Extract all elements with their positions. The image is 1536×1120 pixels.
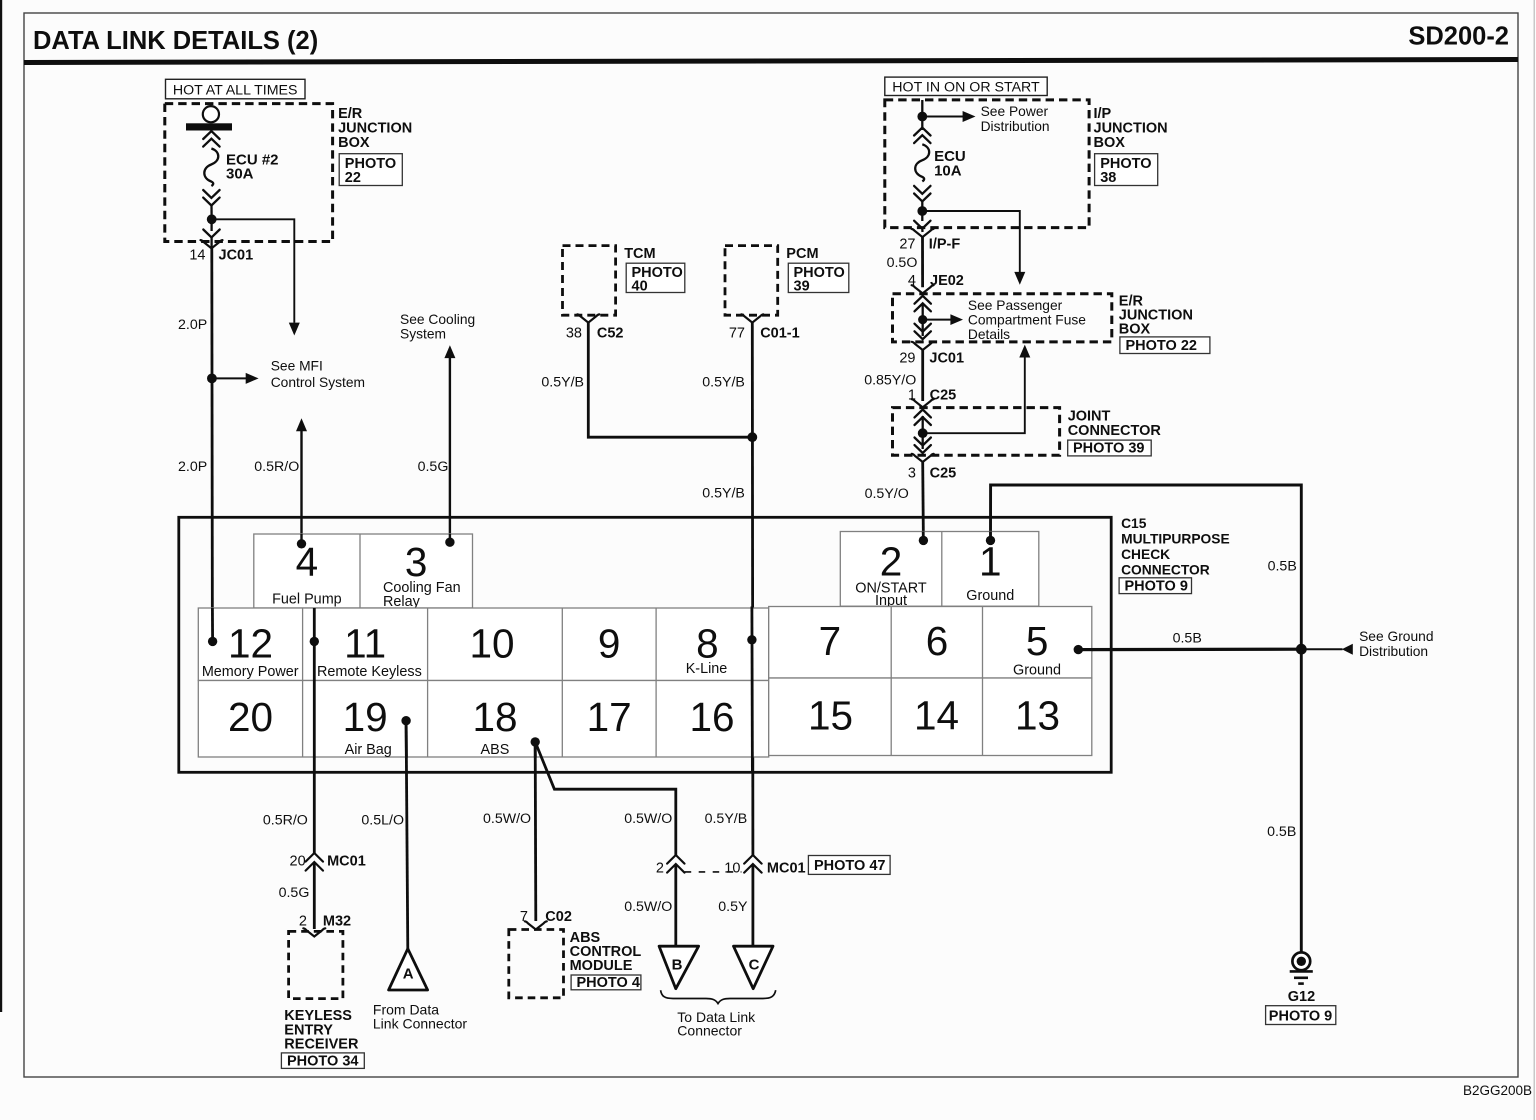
svg-text:0.5O: 0.5O xyxy=(887,255,918,271)
svg-text:MC01: MC01 xyxy=(767,861,806,877)
svg-text:1: 1 xyxy=(979,539,1002,585)
connector pin 2 MC01 xyxy=(656,855,685,877)
wire K-line through boxes 8 and 16 xyxy=(751,607,754,773)
off-page triangle A xyxy=(389,949,428,990)
svg-text:Connector: Connector xyxy=(677,1023,742,1039)
pin box 2/1 group xyxy=(840,532,1039,607)
svg-text:15: 15 xyxy=(808,693,853,739)
connector pin 2 M32 xyxy=(299,914,351,937)
wire branch joint connector (up arrow) xyxy=(923,345,1031,434)
svg-text:19: 19 xyxy=(343,694,388,740)
wire JC01 to C25 (0.85Y/O) xyxy=(921,350,924,401)
wire pin 11 to keyless (0.5R/O) xyxy=(313,639,316,854)
node pin 19 dot xyxy=(401,716,410,725)
svg-text:BOX: BOX xyxy=(1119,322,1151,338)
scanner edge bar left xyxy=(0,0,2,1012)
svg-text:PHOTO 34: PHOTO 34 xyxy=(287,1054,358,1070)
svg-text:7: 7 xyxy=(819,618,842,664)
PHOTO 9 box (G12) xyxy=(1266,1006,1336,1025)
wire stub pin 1 inside box xyxy=(989,532,992,541)
svg-text:PHOTO 4: PHOTO 4 xyxy=(577,975,640,991)
note See Ground Distribution xyxy=(1359,629,1433,659)
svg-text:77: 77 xyxy=(729,325,745,341)
svg-text:PCM: PCM xyxy=(786,246,818,262)
node passenger branch dot xyxy=(918,315,927,324)
wire through joint connector xyxy=(915,410,931,454)
svg-text:G12: G12 xyxy=(1288,989,1315,1005)
joint connector box (dashed) xyxy=(893,408,1060,456)
svg-text:RECEIVER: RECEIVER xyxy=(284,1037,359,1053)
svg-text:10: 10 xyxy=(724,861,740,877)
connector pin 27 I/P-F xyxy=(899,229,960,253)
wire stub pin 11 inside box xyxy=(313,608,316,641)
node pin 4 dot xyxy=(297,539,306,548)
svg-text:0.5L/O: 0.5L/O xyxy=(361,812,404,828)
wire JC01 to pin 12 (2.0P) xyxy=(210,248,213,640)
connector pin 14 JC01 xyxy=(189,240,253,263)
svg-text:BOX: BOX xyxy=(338,135,370,151)
PCM PHOTO 39 box xyxy=(788,263,849,294)
svg-text:PHOTO 9: PHOTO 9 xyxy=(1125,579,1188,595)
wire stub pin 18 inside box xyxy=(534,742,537,758)
fuse ECU 10A xyxy=(914,120,930,207)
battery feed terminal xyxy=(186,106,232,130)
wire fuse output xyxy=(203,223,219,248)
svg-text:DATA LINK DETAILS (2): DATA LINK DETAILS (2) xyxy=(33,27,318,55)
wire branch to MFI (down arrow) xyxy=(212,219,300,335)
node pin 1 dot xyxy=(986,536,995,545)
title rule xyxy=(24,60,1518,63)
svg-text:Ground: Ground xyxy=(1013,662,1061,678)
label HOT IN ON OR START xyxy=(885,77,1047,96)
svg-text:System: System xyxy=(400,327,446,342)
TCM module box (dashed) xyxy=(563,246,616,316)
svg-text:MULTIPURPOSE: MULTIPURPOSE xyxy=(1121,532,1230,547)
svg-text:0.5Y: 0.5Y xyxy=(718,899,748,915)
svg-text:0.5W/O: 0.5W/O xyxy=(624,899,672,915)
svg-text:PHOTO 47: PHOTO 47 xyxy=(814,858,885,874)
svg-text:20: 20 xyxy=(228,694,273,740)
fuse value label ECU #2 30A xyxy=(226,152,279,183)
svg-text:2.0P: 2.0P xyxy=(178,317,207,333)
svg-text:0.5Y/B: 0.5Y/B xyxy=(702,374,745,390)
svg-text:BOX: BOX xyxy=(1094,135,1126,151)
junction dot in E/R box xyxy=(207,214,217,224)
wire arrow to See MFI xyxy=(212,373,259,384)
E/R JUNCTION BOX label xyxy=(338,106,412,151)
wire fuel pump stub (0.5R/O) xyxy=(296,418,307,544)
svg-text:22: 22 xyxy=(345,170,361,186)
connector pin 29 JC01 xyxy=(899,342,964,367)
svg-text:C15: C15 xyxy=(1121,516,1147,531)
wire stub pin 19 inside box xyxy=(405,721,408,758)
connector pin 4 JE02 xyxy=(908,273,964,293)
keyless entry receiver box (dashed) xyxy=(289,931,343,998)
svg-text:CONNECTOR: CONNECTOR xyxy=(1068,423,1162,439)
svg-text:See Passenger: See Passenger xyxy=(968,298,1063,313)
svg-text:Distribution: Distribution xyxy=(1359,644,1428,659)
svg-text:5: 5 xyxy=(1026,618,1049,664)
wire I/P-F to JE02 (0.5O) xyxy=(921,237,924,287)
svg-text:Link Connector: Link Connector xyxy=(373,1016,468,1032)
brace under triangles xyxy=(661,990,776,1003)
svg-text:27: 27 xyxy=(899,237,915,253)
node pin 18 dot xyxy=(531,737,540,746)
node MFI branch dot xyxy=(207,374,217,384)
wire pin 19 to A (0.5L/O) xyxy=(406,721,408,950)
svg-text:HOT AT ALL TIMES: HOT AT ALL TIMES xyxy=(173,82,298,98)
svg-text:JE02: JE02 xyxy=(930,273,964,289)
node pin 2 dot xyxy=(919,536,928,545)
svg-text:PHOTO 9: PHOTO 9 xyxy=(1269,1008,1332,1024)
fuse ECU #2 30A xyxy=(203,131,219,215)
svg-text:14: 14 xyxy=(189,248,205,264)
svg-text:30A: 30A xyxy=(226,166,254,183)
svg-text:0.5B: 0.5B xyxy=(1268,559,1297,575)
svg-text:MODULE: MODULE xyxy=(570,958,633,974)
svg-text:20: 20 xyxy=(290,854,306,870)
connector pin 77 C01-1 xyxy=(729,314,800,341)
node TCM/PCM junction xyxy=(747,432,757,442)
svg-text:CONNECTOR: CONNECTOR xyxy=(1121,563,1210,578)
svg-text:0.5R/O: 0.5R/O xyxy=(254,459,299,475)
svg-text:10A: 10A xyxy=(934,162,962,179)
note See MFI Control System xyxy=(271,359,365,390)
wire arrow See Ground Distribution xyxy=(1301,644,1353,655)
svg-text:SD200-2: SD200-2 xyxy=(1408,23,1509,51)
note See Passenger Compartment Fuse Details xyxy=(968,298,1086,342)
svg-text:8: 8 xyxy=(696,621,719,667)
PCM module box (dashed) xyxy=(725,246,778,316)
svg-text:14: 14 xyxy=(914,693,959,739)
PHOTO 38 box (I/P) xyxy=(1095,154,1158,187)
svg-text:K-Line: K-Line xyxy=(686,661,728,677)
wire PCM K-line vertical xyxy=(751,323,754,856)
svg-text:Fuel Pump: Fuel Pump xyxy=(272,592,342,608)
E/R junction box (dashed) xyxy=(165,104,333,242)
svg-text:Control System: Control System xyxy=(271,375,365,390)
connector pin 1 C25 xyxy=(908,388,956,408)
svg-text:3: 3 xyxy=(908,465,916,481)
node I/P branch dot xyxy=(917,206,927,216)
pin row boxes row 2 left xyxy=(198,681,768,758)
svg-text:9: 9 xyxy=(598,621,621,667)
svg-text:6: 6 xyxy=(926,618,949,664)
svg-text:A: A xyxy=(403,966,414,983)
svg-text:TCM: TCM xyxy=(624,246,655,262)
wire feed into I/P box xyxy=(921,100,923,112)
svg-text:See Cooling: See Cooling xyxy=(400,312,475,327)
svg-text:16: 16 xyxy=(689,694,734,740)
svg-text:JC01: JC01 xyxy=(929,351,964,367)
wire TCM to junction (0.5Y/B) xyxy=(588,323,752,438)
connector pin 38 C52 xyxy=(566,314,624,341)
wire pin 1 to 0.5B riser xyxy=(991,485,1302,953)
note See Power Distribution xyxy=(981,104,1050,134)
wire ABS branch to B xyxy=(535,742,676,855)
node pin 3 dot xyxy=(445,538,454,547)
PHOTO 47 box xyxy=(808,856,890,875)
svg-text:2: 2 xyxy=(880,539,903,585)
PHOTO 22 box xyxy=(1120,337,1210,354)
wire cooling fan stub (0.5G) xyxy=(444,345,455,542)
svg-text:0.5Y/B: 0.5Y/B xyxy=(541,374,584,390)
wire C25 to pin 2 (0.5Y/O) xyxy=(921,462,925,540)
PHOTO 4 box xyxy=(571,975,641,991)
C15 label xyxy=(1121,516,1230,578)
svg-text:Memory Power: Memory Power xyxy=(202,664,299,680)
pin 2 label ON/START Input xyxy=(855,580,927,609)
svg-text:PHOTO 22: PHOTO 22 xyxy=(1126,338,1197,354)
svg-text:CHECK: CHECK xyxy=(1121,547,1170,562)
svg-text:0.5W/O: 0.5W/O xyxy=(624,811,672,827)
svg-text:C52: C52 xyxy=(597,325,624,341)
node pin 8 K-line dot xyxy=(747,635,756,644)
node pin 11 dot xyxy=(310,637,319,646)
I/P junction box (dashed) xyxy=(885,100,1089,228)
svg-text:See Power: See Power xyxy=(981,104,1049,119)
ABS control module box (dashed) xyxy=(509,930,564,998)
svg-text:2: 2 xyxy=(656,861,664,877)
svg-text:MC01: MC01 xyxy=(327,854,366,870)
svg-text:Distribution: Distribution xyxy=(981,119,1050,134)
svg-text:0.5Y/B: 0.5Y/B xyxy=(705,811,748,827)
wire fuse output xyxy=(914,215,930,232)
connector pin 20 MC01 xyxy=(290,853,366,871)
svg-text:Ground: Ground xyxy=(966,588,1014,604)
svg-text:HOT IN ON OR START: HOT IN ON OR START xyxy=(892,80,1040,96)
pin row boxes right group xyxy=(769,607,1092,756)
svg-text:PHOTO 39: PHOTO 39 xyxy=(1073,441,1144,457)
wire stub pin 2 inside box xyxy=(922,532,925,541)
I/P JUNCTION BOX label xyxy=(1094,106,1168,151)
PHOTO 39 box xyxy=(1068,440,1152,457)
svg-text:Remote Keyless: Remote Keyless xyxy=(317,664,422,680)
svg-text:JC01: JC01 xyxy=(219,248,254,264)
svg-text:0.5G: 0.5G xyxy=(418,459,449,475)
wire pin 5 ground (0.5B) xyxy=(1078,648,1301,652)
ground G12 symbol xyxy=(1290,952,1313,983)
svg-text:3: 3 xyxy=(405,539,428,585)
note To Data Link Connector xyxy=(677,1009,756,1039)
svg-text:11: 11 xyxy=(344,621,386,667)
pin box 4/3 group xyxy=(254,534,473,608)
scanner edge line right xyxy=(1534,0,1535,1120)
C15 connector outline xyxy=(179,517,1111,772)
node pin 5 dot xyxy=(1074,645,1083,654)
connector pin 10 MC01 xyxy=(724,855,805,877)
fuse value label ECU 10A xyxy=(934,148,966,179)
node pin 12 dot xyxy=(208,637,217,646)
node power distribution dot xyxy=(917,112,927,122)
svg-text:38: 38 xyxy=(566,325,582,341)
svg-text:10: 10 xyxy=(469,621,514,667)
svg-text:See Ground: See Ground xyxy=(1359,629,1433,644)
svg-text:See MFI: See MFI xyxy=(271,359,323,374)
svg-text:0.5B: 0.5B xyxy=(1267,824,1296,840)
connector pin 7 C02 xyxy=(520,909,572,930)
node ground distribution junction xyxy=(1296,644,1307,655)
wire stub pin 12 inside box xyxy=(211,608,214,641)
svg-text:Compartment Fuse: Compartment Fuse xyxy=(968,313,1086,328)
svg-text:38: 38 xyxy=(1100,170,1116,186)
svg-text:0.5R/O: 0.5R/O xyxy=(263,812,308,828)
svg-text:I/P-F: I/P-F xyxy=(929,237,961,253)
ABS CONTROL MODULE label xyxy=(570,930,642,974)
wire stub pin 4 inside box xyxy=(300,534,302,544)
JOINT CONNECTOR label xyxy=(1068,409,1162,440)
svg-text:ABS: ABS xyxy=(481,742,510,758)
off-page triangle B xyxy=(659,946,699,989)
svg-text:40: 40 xyxy=(632,279,648,295)
connector pin 3 C25 xyxy=(908,454,956,482)
note From Data Link Connector xyxy=(373,1001,468,1031)
svg-text:C: C xyxy=(749,957,760,974)
TCM PHOTO 40 box xyxy=(626,263,685,294)
wire pin 18 to C02 (0.5W/O) xyxy=(534,742,537,921)
PHOTO 34 box xyxy=(281,1053,364,1070)
connector link dashes xyxy=(685,871,742,873)
svg-text:C02: C02 xyxy=(545,909,572,925)
svg-text:39: 39 xyxy=(794,279,810,295)
svg-text:C25: C25 xyxy=(930,388,957,404)
svg-text:0.5W/O: 0.5W/O xyxy=(483,811,531,827)
svg-text:0.5G: 0.5G xyxy=(279,885,310,901)
svg-text:0.5B: 0.5B xyxy=(1173,630,1202,646)
wire through box 2 xyxy=(915,296,931,339)
svg-text:17: 17 xyxy=(587,694,632,740)
note See Cooling System xyxy=(400,312,475,342)
svg-text:18: 18 xyxy=(472,694,517,740)
wire arrow to See Power Distribution xyxy=(922,111,975,122)
svg-text:Details: Details xyxy=(968,327,1010,342)
svg-text:0.85Y/O: 0.85Y/O xyxy=(864,372,916,388)
PHOTO 9 box (C15) xyxy=(1119,578,1191,595)
KEYLESS ENTRY RECEIVER label xyxy=(284,1008,359,1053)
svg-text:C25: C25 xyxy=(930,465,957,481)
svg-text:12: 12 xyxy=(228,621,273,667)
node joint connector dot xyxy=(918,428,928,438)
E/R junction box 2 (dashed) xyxy=(893,294,1112,342)
pin 3 label Cooling Fan Relay xyxy=(383,580,461,610)
svg-text:B2GG200B: B2GG200B xyxy=(1463,1083,1532,1098)
svg-text:Air Bag: Air Bag xyxy=(345,742,392,758)
svg-text:0.5Y/B: 0.5Y/B xyxy=(702,486,745,502)
svg-text:0.5Y/O: 0.5Y/O xyxy=(865,486,909,502)
svg-text:2.0P: 2.0P xyxy=(178,459,207,475)
off-page triangle C xyxy=(734,946,774,989)
svg-text:13: 13 xyxy=(1015,693,1060,739)
wire stub pin 5 inside box xyxy=(1078,648,1093,651)
wire stub pin 3 inside box xyxy=(449,534,451,542)
svg-text:M32: M32 xyxy=(323,914,351,930)
PHOTO 22 box (E/R) xyxy=(339,154,402,187)
svg-text:29: 29 xyxy=(899,351,915,367)
wire arrow to See Passenger xyxy=(923,314,963,325)
wire branch to passenger fuse details (down arrow) xyxy=(922,211,1025,285)
pin row boxes row 1 left xyxy=(198,608,768,681)
svg-text:B: B xyxy=(672,957,683,974)
svg-text:C01-1: C01-1 xyxy=(760,325,800,341)
label HOT AT ALL TIMES xyxy=(166,79,306,99)
E/R JUNCTION BOX label xyxy=(1119,294,1193,338)
